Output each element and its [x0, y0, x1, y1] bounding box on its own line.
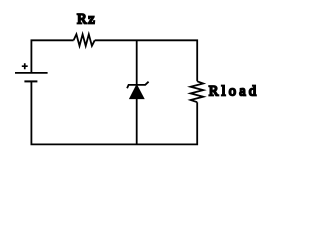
wire: middle branch from top wire down to zener cathode	[136, 40, 138, 85]
wire: bottom rail from battery negative down, across, and up to Rload	[31, 81, 197, 144]
svg-text:Rload: Rload	[209, 83, 260, 99]
svg-text:Rz: Rz	[77, 11, 96, 27]
battery B1 plus sign	[22, 63, 28, 69]
battery B1 negative short plate	[24, 80, 37, 82]
resistor Rload	[191, 81, 204, 102]
zener diode D1 cathode bar with bent ends	[127, 82, 149, 89]
zener diode D1 anode triangle	[130, 85, 144, 99]
wire: top-left corner from battery positive up and right to Rz	[31, 40, 73, 73]
wire: top from Rz right to top-right corner down to Rload	[95, 40, 198, 81]
battery B1 positive long plate	[15, 72, 48, 74]
wire: middle branch from zener anode down to bottom wire	[136, 98, 138, 145]
resistor Rz	[74, 34, 95, 46]
